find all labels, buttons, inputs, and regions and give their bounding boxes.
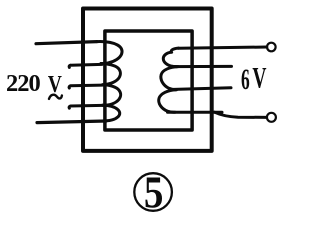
AC tilde symbol under V of 220V [49, 95, 62, 99]
transformer core inner rectangle [105, 31, 192, 130]
wire: secondary turn 3 [170, 88, 231, 90]
wire: primary top lead [36, 42, 97, 44]
wire: secondary turn 2 [172, 65, 232, 68]
wire: secondary bottom lead to terminal [215, 112, 267, 117]
terminal circle bottom [267, 113, 276, 122]
coil bump 1 of secondary winding [163, 48, 178, 67]
circle of figure number 5 [134, 173, 172, 211]
transformer core outer rectangle [83, 9, 212, 151]
coil bump 4 of primary winding [103, 105, 120, 120]
wire: primary bottom lead [37, 121, 106, 123]
svg-text:220: 220 [6, 70, 41, 97]
coil bump 3 of primary winding [103, 85, 121, 106]
wire: primary turn 2 [69, 64, 102, 67]
wire: primary turn 3 [69, 85, 102, 88]
coil bump 2 of secondary winding [161, 67, 178, 90]
wire: secondary turn 4 [168, 111, 223, 114]
coil bump 2 of primary winding [101, 64, 120, 85]
coil bump 3 of secondary winding [159, 90, 176, 113]
svg-text:5: 5 [144, 168, 164, 217]
wire: primary turn 4 [69, 105, 102, 108]
wire: secondary top lead [179, 47, 267, 48]
coil bump 1 of primary winding [97, 42, 122, 64]
svg-text:V: V [252, 62, 266, 95]
terminal circle top [267, 43, 276, 52]
svg-text:6: 6 [241, 64, 250, 97]
svg-text:V: V [48, 70, 62, 98]
